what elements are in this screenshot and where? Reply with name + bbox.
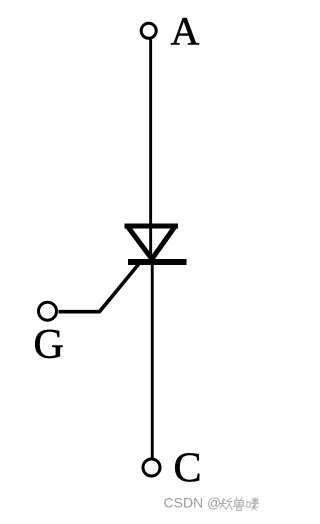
wire gate lead xyxy=(59,263,141,312)
wire anode: A terminal to thyristor xyxy=(149,40,152,260)
wire cathode: thyristor to C terminal xyxy=(151,265,154,459)
node A terminal circle xyxy=(141,23,156,38)
thyristor V1 triangle (anode) xyxy=(125,225,179,259)
node G terminal circle xyxy=(39,302,57,320)
char lou xyxy=(247,498,259,511)
watermark CJK glyphs xyxy=(220,498,259,511)
char shou xyxy=(234,498,245,511)
svg-text:A: A xyxy=(171,9,200,54)
svg-text:CSDN @: CSDN @ xyxy=(164,495,222,511)
node C terminal circle xyxy=(143,459,160,476)
char yao xyxy=(220,499,232,510)
thyristor V1 cathode bar xyxy=(128,259,187,265)
svg-text:C: C xyxy=(174,446,202,492)
svg-text:G: G xyxy=(34,322,64,368)
